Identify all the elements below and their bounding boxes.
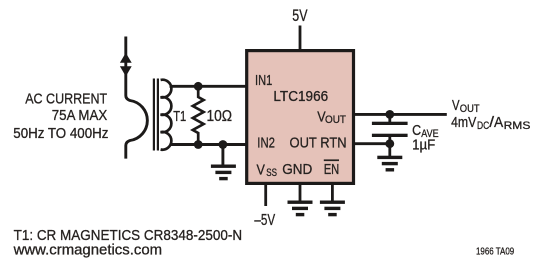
- svg-text:IN2: IN2: [257, 135, 275, 152]
- wire ground stub below OUT RTN: [388, 144, 391, 157]
- wire OUT RTN output: [354, 142, 390, 145]
- wire 5V supply stub: [299, 26, 302, 51]
- svg-text:5V: 5V: [292, 7, 307, 25]
- svg-text:OUT RTN: OUT RTN: [290, 135, 347, 152]
- ground (EN pin): [320, 201, 345, 217]
- node junction VOUT / cap top: [385, 110, 394, 119]
- svg-text:T1: CR MAGNETICS CR8348-2500-N: T1: CR MAGNETICS CR8348-2500-N: [14, 228, 243, 244]
- svg-text:A: A: [494, 114, 503, 131]
- wire IN2 bottom rail: [170, 143, 247, 146]
- svg-text:10Ω: 10Ω: [207, 108, 233, 125]
- wire EN pin stub: [331, 185, 334, 202]
- ground (below IN2 rail): [211, 165, 236, 181]
- resistor 10Ω: [193, 86, 204, 144]
- wire GND pin stub: [299, 185, 302, 202]
- svg-text:–5V: –5V: [254, 212, 275, 229]
- svg-text:EN: EN: [324, 161, 340, 178]
- svg-text:GND: GND: [282, 161, 312, 178]
- svg-text:IN1: IN1: [255, 72, 272, 89]
- IC LTC1966: [247, 51, 354, 184]
- AC current arrows: [120, 53, 132, 77]
- svg-text:V: V: [257, 161, 265, 178]
- node junction OUT RTN / cap bottom: [385, 139, 394, 148]
- svg-text:1966 TA09: 1966 TA09: [476, 246, 514, 258]
- node junction resistor top: [194, 82, 203, 91]
- wire cap bottom stub: [388, 137, 391, 144]
- transformer T1 secondary winding: [161, 80, 172, 150]
- svg-text:4mV: 4mV: [451, 114, 476, 131]
- svg-text:AC CURRENT: AC CURRENT: [25, 90, 107, 107]
- transformer T1 core: [153, 79, 155, 151]
- transformer T1 primary: [126, 37, 148, 159]
- svg-text:SS: SS: [266, 167, 277, 179]
- node junction resistor bottom: [194, 140, 203, 149]
- wire ground stub below IN2 rail: [221, 145, 224, 166]
- svg-text:75A MAX: 75A MAX: [52, 107, 107, 124]
- svg-text:V: V: [452, 97, 460, 114]
- wire VSS pin stub: [264, 185, 267, 207]
- ground (GND pin): [288, 201, 313, 217]
- wire cap top stub: [388, 114, 391, 122]
- wire IN1 top rail: [170, 85, 247, 88]
- svg-text:LTC1966: LTC1966: [273, 88, 328, 105]
- capacitor CAVE: [372, 122, 408, 137]
- ground (output): [377, 156, 402, 172]
- svg-text:DC: DC: [477, 120, 489, 132]
- node junction ground tap: [219, 140, 228, 149]
- svg-text:50Hz TO 400Hz: 50Hz TO 400Hz: [13, 125, 108, 142]
- svg-text:OUT: OUT: [325, 114, 346, 126]
- svg-text:T1: T1: [173, 108, 186, 125]
- svg-text:www.crmagnetics.com: www.crmagnetics.com: [13, 243, 163, 259]
- wire VOUT output: [354, 113, 447, 116]
- svg-text:RMS: RMS: [504, 120, 531, 132]
- svg-text:1µF: 1µF: [412, 137, 435, 154]
